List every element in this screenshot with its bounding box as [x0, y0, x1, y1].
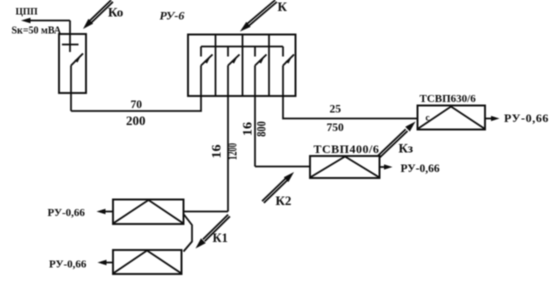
- wire cell 1 down: [200, 66, 202, 97]
- transformer TSVP400/6: [310, 156, 380, 178]
- breaker blade in supply cell: [71, 54, 83, 66]
- svg-text:16: 16: [240, 122, 254, 136]
- wire bracket to lower transformer: [184, 214, 193, 252]
- wire feeder 2 to upper left transformer: [184, 211, 229, 213]
- svg-text:РУ-0,66: РУ-0,66: [504, 111, 549, 125]
- svg-text:РУ-0,66: РУ-0,66: [49, 259, 87, 271]
- svg-text:Sк=50 мВА: Sк=50 мВА: [12, 26, 62, 37]
- breaker blade cell 1: [201, 55, 213, 66]
- switchgear RU-6 outer box: [188, 35, 296, 97]
- fault arrow K: [240, 0, 277, 32]
- svg-text:25: 25: [330, 104, 342, 116]
- svg-text:800: 800: [253, 121, 268, 137]
- terminal cross in supply cell: [62, 44, 79, 46]
- svg-text:ТСВП630/6: ТСВП630/6: [420, 93, 477, 105]
- RU-6 cell divider 1: [215, 35, 217, 97]
- bus stub cell 4: [282, 47, 284, 57]
- RU-6 cell divider 2: [242, 35, 244, 97]
- svg-text:РУ-6: РУ-6: [160, 9, 185, 23]
- transformer TSVP630/6: [418, 106, 486, 130]
- svg-text:Кз: Кз: [399, 141, 413, 156]
- wire cell 4 feeder down and right: [283, 66, 418, 119]
- svg-text:Ко: Ко: [108, 5, 123, 20]
- RU-6 cell divider 3: [268, 35, 270, 97]
- svg-text:К2: К2: [276, 193, 292, 208]
- transformer lower left: [113, 250, 182, 274]
- fault arrow Ko: [83, 0, 113, 29]
- svg-text:РУ-0,66: РУ-0,66: [48, 207, 86, 219]
- wire to RU-0,66 left lower with arrowhead: [98, 260, 114, 265]
- busbar of RU-6: [201, 46, 283, 48]
- wire to RU-0,66 right mid with arrowhead: [380, 164, 393, 169]
- svg-text:К1: К1: [213, 231, 228, 245]
- bus stub cell 3: [254, 47, 256, 57]
- svg-text:750: 750: [327, 122, 345, 134]
- breaker blade cell 2: [228, 55, 240, 66]
- fault arrow K2: [262, 172, 294, 203]
- svg-text:РУ-0,66: РУ-0,66: [401, 163, 440, 175]
- wire cell 3 feeder down: [254, 66, 256, 167]
- svg-text:ТСВП400/6: ТСВП400/6: [314, 142, 380, 156]
- svg-text:1200: 1200: [224, 143, 239, 160]
- transformer upper left: [113, 200, 184, 225]
- wire from supply cell down: [70, 66, 72, 112]
- wire feeder 3 to TSVP400/6: [255, 166, 310, 168]
- wire from CPP line down into supply cell: [69, 21, 71, 53]
- svg-text:с: с: [426, 113, 430, 123]
- wire to CPP with arrowhead: [21, 18, 70, 24]
- fault arrow Kz: [378, 122, 415, 158]
- wire 70/200 from supply to RU-6 cell 1: [71, 96, 201, 111]
- wire cell 2 feeder down: [227, 66, 229, 212]
- svg-text:200: 200: [126, 113, 146, 128]
- svg-text:ЦПП: ЦПП: [16, 8, 39, 18]
- fault arrow K1: [196, 215, 230, 249]
- breaker blade cell 4: [283, 55, 294, 66]
- breaker blade cell 3: [255, 55, 267, 66]
- bus stub cell 2: [227, 47, 229, 57]
- svg-text:70: 70: [131, 99, 143, 111]
- bus stub cell 1: [200, 47, 202, 57]
- wire to RU-0,66 left upper with arrowhead: [97, 209, 114, 214]
- wire to RU-0,66 right top with arrowhead: [485, 116, 500, 121]
- supply breaker cell rectangle: [59, 34, 86, 93]
- svg-text:К: К: [278, 0, 288, 14]
- svg-text:16: 16: [209, 145, 223, 159]
